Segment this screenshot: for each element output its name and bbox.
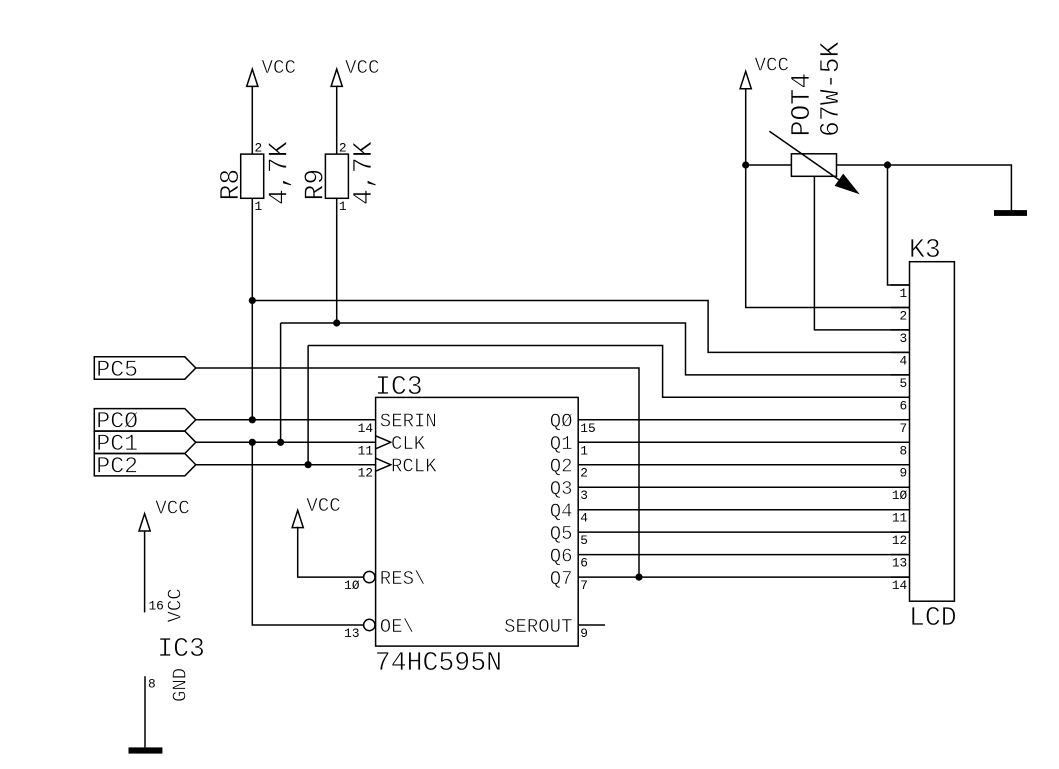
svg-text:PC5: PC5 (96, 357, 138, 383)
svg-text:VCC: VCC (306, 495, 341, 517)
svg-text:11: 11 (358, 443, 374, 458)
svg-text:2: 2 (255, 141, 263, 156)
svg-text:11: 11 (892, 511, 908, 526)
svg-text:IC3: IC3 (157, 634, 205, 664)
svg-text:1: 1 (255, 199, 263, 214)
svg-text:1: 1 (580, 443, 588, 458)
svg-text:1: 1 (339, 199, 347, 214)
svg-text:VCC: VCC (155, 498, 190, 520)
svg-text:2: 2 (900, 308, 908, 323)
svg-text:2: 2 (339, 141, 347, 156)
svg-text:1Ø: 1Ø (892, 488, 908, 503)
svg-text:4: 4 (900, 353, 908, 368)
svg-text:9: 9 (900, 466, 908, 481)
svg-text:R8: R8 (216, 169, 246, 201)
svg-text:3: 3 (580, 488, 588, 503)
svg-text:K3: K3 (909, 235, 941, 265)
svg-text:2: 2 (580, 466, 588, 481)
svg-text:IC3: IC3 (375, 372, 423, 402)
svg-text:6: 6 (900, 398, 908, 413)
svg-text:VCC: VCC (345, 57, 380, 79)
svg-text:Q5: Q5 (550, 523, 573, 545)
svg-text:3: 3 (900, 331, 908, 346)
svg-text:4,7K: 4,7K (349, 141, 379, 205)
svg-text:VCC: VCC (755, 55, 790, 77)
svg-text:1: 1 (900, 286, 908, 301)
svg-text:VCC: VCC (165, 588, 187, 622)
svg-text:LCD: LCD (909, 603, 957, 633)
svg-text:RCLK: RCLK (391, 456, 437, 478)
svg-text:5: 5 (580, 533, 588, 548)
svg-text:9: 9 (580, 626, 588, 641)
svg-text:Q6: Q6 (550, 546, 573, 568)
svg-text:13: 13 (344, 626, 359, 641)
svg-text:5: 5 (900, 376, 908, 391)
svg-text:7: 7 (900, 421, 908, 436)
svg-text:8: 8 (148, 677, 156, 692)
svg-text:PC2: PC2 (96, 454, 138, 480)
svg-text:SERIN: SERIN (380, 411, 437, 433)
svg-text:12: 12 (892, 533, 907, 548)
svg-text:14: 14 (892, 578, 908, 593)
svg-text:POT4: POT4 (787, 73, 817, 137)
svg-text:Q7: Q7 (550, 568, 573, 590)
svg-text:Q4: Q4 (550, 501, 573, 523)
svg-text:6: 6 (580, 556, 588, 571)
svg-text:Q3: Q3 (550, 478, 573, 500)
svg-text:4: 4 (580, 511, 588, 526)
svg-text:Q2: Q2 (550, 456, 573, 478)
svg-text:8: 8 (900, 443, 908, 458)
svg-text:7: 7 (580, 578, 588, 593)
svg-text:13: 13 (892, 556, 907, 571)
svg-text:12: 12 (358, 466, 373, 481)
svg-text:14: 14 (358, 421, 374, 436)
svg-text:1Ø: 1Ø (344, 578, 360, 593)
svg-text:RES\: RES\ (380, 568, 426, 590)
svg-text:VCC: VCC (262, 57, 297, 79)
svg-text:Q1: Q1 (550, 433, 573, 455)
svg-text:67W-5K: 67W-5K (816, 41, 846, 137)
svg-text:R9: R9 (301, 169, 331, 201)
svg-text:16: 16 (149, 599, 164, 614)
svg-text:74HC595N: 74HC595N (375, 648, 502, 678)
svg-text:4,7K: 4,7K (265, 141, 295, 205)
svg-text:15: 15 (580, 421, 595, 436)
svg-text:GND: GND (170, 668, 192, 702)
svg-text:SEROUT: SEROUT (504, 616, 572, 638)
svg-text:CLK: CLK (391, 433, 426, 455)
svg-text:QØ: QØ (550, 411, 573, 433)
svg-text:OE\: OE\ (380, 616, 414, 638)
